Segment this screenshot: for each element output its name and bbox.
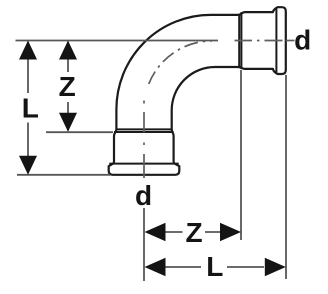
svg-text:L: L [22,93,39,124]
extension line right socket face down [285,75,287,279]
bottom socket shoulder line outer [114,131,174,133]
arrow up L [19,41,37,60]
arrow down L [19,156,37,175]
right socket shoulder line inner [238,15,240,67]
centerline vertical dash below face [143,154,145,178]
top extension line [16,40,219,42]
arrow down Z [59,113,77,132]
svg-text:Z: Z [185,217,202,248]
bottom socket shoulder line inner [116,128,171,130]
centerline vertical dot [143,143,145,146]
centerline vertical dot upper [143,101,145,104]
arrow right Z horizontal [220,223,241,242]
centerline horizontal dash at bead [265,40,283,42]
right socket bead crease [275,8,277,73]
bottom socket bead crease [109,163,178,165]
centerline vertical dash through shoulder [143,112,145,133]
svg-text:d: d [135,180,152,211]
extension line right socket shoulder down [240,70,242,240]
L bottom extension line [17,174,110,176]
svg-text:Z: Z [59,71,76,102]
dimension L vertical line [27,42,29,93]
arrow left Z horizontal [145,223,166,242]
extension line center below d [143,208,145,281]
centerline bend arc dash-dot [144,41,212,109]
svg-text:d: d [294,24,311,55]
centerline horizontal dash in socket [235,40,253,42]
svg-text:L: L [206,251,223,282]
arrow right L horizontal [265,258,286,277]
right socket shoulder line outer [240,12,242,69]
dimension Z horizontal [162,231,183,233]
centerline horizontal dot [257,40,260,42]
arrow up Z [59,41,77,60]
arrow left L horizontal [145,258,166,277]
elbow body outline [109,7,286,175]
Z extension line (bottom socket shoulder plane) [46,131,113,133]
dimension Z vertical line [67,42,69,72]
dimension L horizontal [164,266,201,268]
centerline stub to d [286,40,295,42]
